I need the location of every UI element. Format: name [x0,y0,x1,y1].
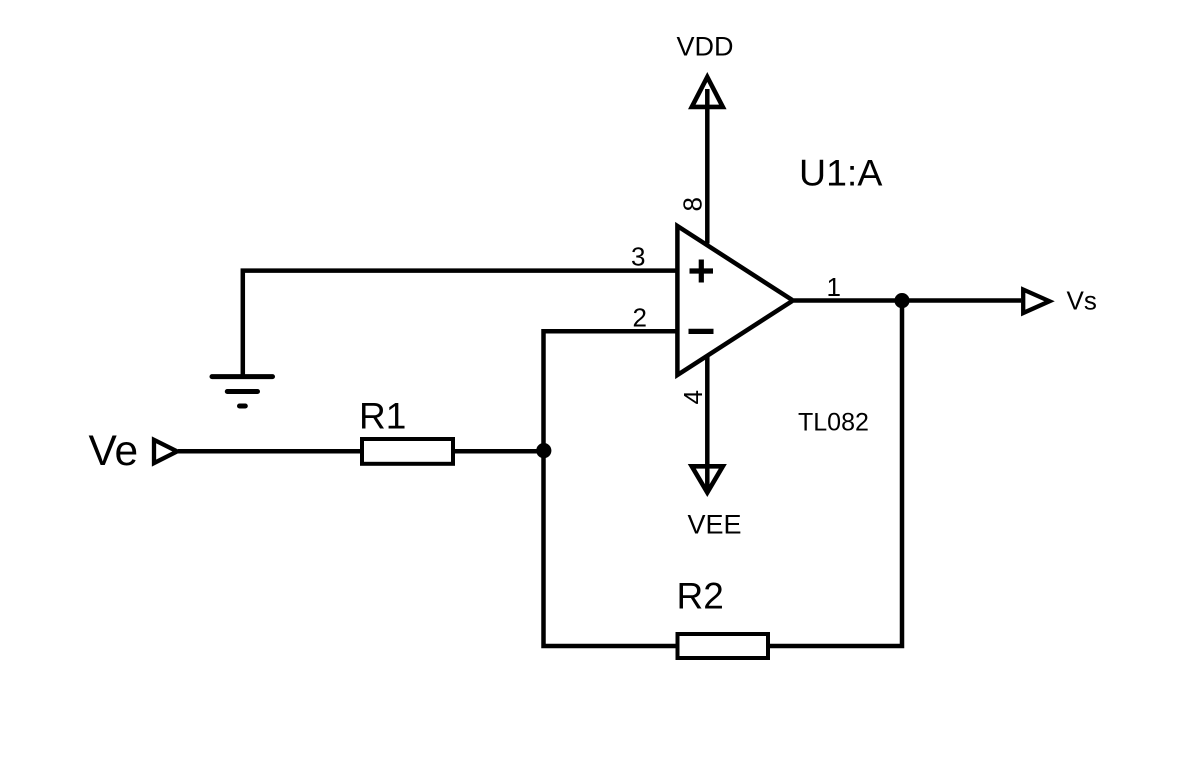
svg-text:TL082: TL082 [798,409,869,437]
wire: Ve terminal to R1 [178,449,364,454]
svg-text:8: 8 [677,197,707,211]
wire: junction up to pin 2 (inverting input) [544,331,677,451]
svg-text:U1:A: U1:A [799,152,882,194]
wire: R1 to junction node [453,449,544,454]
svg-text:VDD: VDD [677,32,734,62]
svg-text:VEE: VEE [688,510,742,540]
svg-text:4: 4 [678,390,708,404]
svg-text:Ve: Ve [89,428,139,475]
resistor R1 [362,439,453,464]
wire: non-inverting input to ground corner [243,271,677,376]
wire: op-amp output to Vs terminal [794,298,1021,303]
svg-text:1: 1 [827,272,841,302]
wire: feedback left leg down to R2 [544,451,680,646]
wire: pin 4 to VEE [705,357,710,491]
terminal Ve [154,440,177,463]
svg-text:R1: R1 [359,396,406,437]
svg-text:Vs: Vs [1067,286,1097,316]
wire: pin 8 to VDD [705,89,710,244]
svg-text:2: 2 [633,303,647,333]
op-amp U1:A triangle [677,226,793,375]
resistor R2 [678,634,769,658]
power VDD arrow [692,77,723,107]
svg-text:R2: R2 [677,576,724,617]
svg-text:3: 3 [631,242,645,272]
op-amp plus symbol [690,260,714,283]
ground [212,377,273,406]
terminal Vs [1023,290,1049,314]
power VEE arrow [692,466,723,492]
junction node dot (R1/feedback) [536,443,551,458]
output node dot [894,293,909,308]
wire: R2 to output node (right leg up) [766,301,902,647]
op-amp minus symbol [689,329,714,334]
